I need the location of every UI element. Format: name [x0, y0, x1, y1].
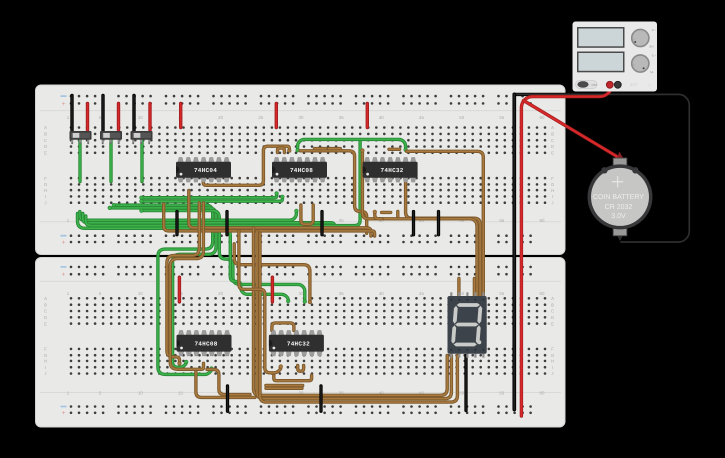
wire brown arc board2 — [234, 244, 310, 302]
wire black jumper board1 x438.5 — [437, 212, 440, 235]
wire red jumper board1 x367.3 — [366, 103, 369, 127]
wire black vertical bus — [512, 94, 516, 409]
wire red jumper board1 x180.7 — [179, 103, 182, 127]
IC 74HC04 — [176, 157, 231, 182]
svg-text:55: 55 — [499, 391, 504, 396]
IC 74HC32 — [363, 157, 418, 182]
wire brown Q4 — [239, 231, 281, 373]
svg-text:+: + — [61, 410, 65, 417]
svg-text:J: J — [551, 371, 553, 376]
slide switch — [100, 131, 122, 144]
svg-text:F: F — [44, 347, 47, 352]
svg-text:10: 10 — [138, 115, 143, 120]
wire red switch feed x87.5 — [86, 103, 89, 130]
wire black jumper board1 x413.5 — [412, 212, 415, 235]
wire green loop over ICs — [298, 139, 406, 150]
wire green G10 into board2 — [78, 214, 289, 302]
svg-text:45: 45 — [419, 115, 424, 120]
svg-text:I: I — [45, 194, 46, 199]
wire green switch2 out — [109, 140, 112, 182]
svg-text:CR 2032: CR 2032 — [605, 204, 633, 211]
svg-text:C: C — [551, 309, 554, 314]
breadboard bottom — [36, 258, 566, 428]
svg-text:B: B — [551, 132, 554, 137]
svg-text:74HC04: 74HC04 — [194, 167, 217, 174]
svg-text:35: 35 — [339, 218, 344, 223]
svg-text:C: C — [44, 138, 47, 143]
svg-text:35: 35 — [339, 115, 344, 120]
svg-text:A: A — [551, 296, 554, 301]
svg-text:F: F — [551, 176, 554, 181]
svg-text:☇: ☇ — [648, 83, 651, 89]
slide switch — [131, 131, 153, 144]
svg-text:I: I — [552, 365, 553, 370]
svg-text:60: 60 — [540, 218, 545, 223]
svg-text:50: 50 — [459, 115, 464, 120]
wire red jumper board2 x179.4 — [178, 277, 181, 302]
wire brown display top rail a — [457, 279, 460, 297]
svg-text:D: D — [551, 315, 554, 320]
svg-text:H: H — [44, 359, 47, 364]
wire black switch feed x103 — [101, 96, 104, 131]
wire brown from IC1 — [203, 146, 289, 185]
svg-text:I: I — [552, 194, 553, 199]
svg-text:H: H — [551, 188, 554, 193]
wire brown Bh2 — [164, 204, 375, 236]
svg-text:3.0V: 3.0V — [611, 213, 626, 220]
wire brown BX — [196, 371, 255, 397]
svg-text:55: 55 — [499, 115, 504, 120]
wire green G8 — [83, 214, 335, 231]
wire red switch feed x150 — [148, 103, 151, 130]
wire brown BB trunk — [300, 151, 367, 234]
svg-text:E: E — [44, 151, 47, 156]
wire brown dash under IC5 d — [266, 387, 302, 390]
svg-text:74HC32: 74HC32 — [287, 340, 310, 347]
svg-text:45: 45 — [419, 291, 424, 296]
wire brown display top rail b — [473, 279, 476, 297]
wire brown Q1 display seg — [254, 228, 448, 396]
wire black jumper board1 x227 — [225, 212, 228, 235]
wire green G5 — [110, 208, 216, 367]
svg-text:B: B — [551, 302, 554, 307]
svg-text:50: 50 — [459, 391, 464, 396]
svg-text:10: 10 — [138, 291, 143, 296]
wire brown Q2 display seg — [257, 231, 451, 399]
svg-text:15: 15 — [178, 391, 183, 396]
IC 74HC08 — [177, 330, 232, 356]
wire brown stub J2 — [396, 212, 399, 217]
wire brown BL1 — [167, 203, 199, 364]
IC 74HC08 — [272, 157, 327, 182]
svg-text:A: A — [44, 125, 47, 130]
svg-text:J: J — [551, 200, 553, 205]
svg-text:74HC08: 74HC08 — [194, 340, 217, 347]
wire black jumper board1 x177 — [175, 212, 178, 235]
wire red switch feed x118.5 — [117, 103, 120, 130]
svg-text:+: + — [61, 101, 65, 108]
wire brown U under IC5 a — [298, 366, 304, 372]
slide switch — [70, 131, 92, 144]
svg-text:A: A — [44, 296, 47, 301]
svg-text:55: 55 — [499, 291, 504, 296]
svg-text:F: F — [551, 347, 554, 352]
svg-text:40: 40 — [379, 115, 384, 120]
svg-text:74HC08: 74HC08 — [290, 167, 313, 174]
svg-text:OFF: OFF — [592, 83, 598, 87]
wire brown stub J — [375, 212, 382, 219]
wire red jumper board2 x272.4 — [271, 277, 274, 302]
wire brown U under IC5 b — [274, 376, 312, 381]
svg-text:+: + — [61, 272, 65, 279]
wire brown BL2 — [170, 203, 203, 369]
wire green switch1 out — [78, 140, 81, 182]
power supply — [573, 22, 658, 92]
svg-text:-O +: -O + — [651, 54, 657, 58]
breadboard top — [36, 85, 566, 255]
wire brown dash J — [382, 211, 391, 214]
svg-text:I: I — [45, 365, 46, 370]
7-segment display — [448, 292, 487, 357]
svg-text:D: D — [44, 144, 47, 149]
svg-text:337: 337 — [630, 82, 638, 87]
svg-text:B: B — [44, 132, 47, 137]
svg-text:+: + — [61, 239, 65, 246]
wire red jumper board1 x276.3 — [275, 103, 278, 127]
wire black jumper board2 x227.5 — [226, 386, 229, 411]
svg-text:H: H — [551, 359, 554, 364]
svg-text:H: H — [44, 188, 47, 193]
wire red power supply to rail — [521, 87, 610, 417]
wire black switch feed x134 — [132, 96, 135, 131]
wire brown Q3 display seg — [260, 233, 457, 402]
svg-text:-O +: -O + — [651, 28, 657, 32]
svg-text:10: 10 — [138, 391, 143, 396]
wire black display ground — [464, 356, 467, 411]
wire green switch3 out — [140, 140, 143, 182]
wire black power supply loop to battery — [514, 94, 689, 242]
wire brown dash IC3 — [389, 148, 400, 151]
wire black jumper board1 x322 — [320, 212, 323, 235]
wire green G11 — [141, 211, 304, 302]
svg-text:30: 30 — [299, 115, 304, 120]
svg-text:C: C — [551, 138, 554, 143]
svg-text:40: 40 — [379, 291, 384, 296]
wire brown u-hook — [301, 205, 313, 224]
svg-text:F: F — [44, 176, 47, 181]
svg-text:55: 55 — [499, 218, 504, 223]
coin battery CR2032 — [588, 152, 653, 241]
svg-text:A: A — [551, 125, 554, 130]
wire black switch feed x72 — [70, 96, 73, 131]
wire brown B2 to display top — [407, 151, 484, 296]
svg-text:COIN BATTERY: COIN BATTERY — [593, 194, 644, 201]
wire green gB — [141, 197, 282, 201]
svg-text:60: 60 — [540, 291, 545, 296]
wire brown Bh1 — [189, 191, 371, 237]
IC 74HC32 — [269, 330, 324, 356]
svg-text:D: D — [551, 144, 554, 149]
svg-text:J: J — [44, 200, 46, 205]
svg-text:E: E — [551, 151, 554, 156]
svg-text:60: 60 — [540, 391, 545, 396]
wire brown hook above IC2 — [278, 148, 285, 153]
svg-text:D: D — [44, 315, 47, 320]
wire brown hook above IC5 — [272, 323, 294, 331]
svg-text:E: E — [551, 321, 554, 326]
svg-text:20: 20 — [218, 115, 223, 120]
wire brown BL3 — [207, 369, 250, 394]
svg-text:30V: 30V — [649, 45, 654, 49]
svg-text:B: B — [44, 302, 47, 307]
svg-text:60: 60 — [540, 115, 545, 120]
svg-text:25: 25 — [258, 115, 263, 120]
wire brown dash under IC5 c — [266, 384, 303, 387]
svg-text:C: C — [44, 309, 47, 314]
wire green G9 up to loop — [86, 141, 360, 226]
svg-text:20: 20 — [218, 291, 223, 296]
wire black jumper board2 x321 — [319, 386, 322, 411]
wire red diagonal to battery — [524, 101, 619, 160]
wire brown dash a — [315, 147, 326, 150]
svg-text:5A: 5A — [650, 70, 654, 74]
wire green G7 — [80, 211, 297, 220]
svg-text:E: E — [44, 321, 47, 326]
svg-text:J: J — [44, 371, 46, 376]
wire green gA — [141, 193, 276, 197]
svg-text:35: 35 — [339, 291, 344, 296]
wire brown N1 to display top — [362, 151, 477, 297]
wire brown IC3 to display top — [406, 180, 481, 297]
wire brown dash b — [329, 147, 341, 150]
wire green G4 — [114, 205, 213, 374]
svg-text:74HC32: 74HC32 — [381, 167, 404, 174]
